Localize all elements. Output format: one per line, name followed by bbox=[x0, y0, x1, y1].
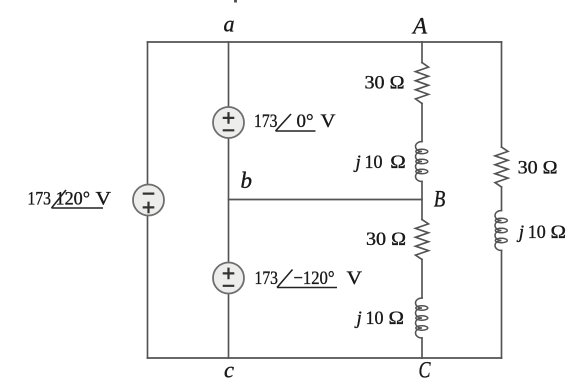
svg-text:Ω: Ω bbox=[389, 308, 405, 329]
inductor j10ohm A-B branch bbox=[416, 142, 428, 182]
svg-text:Ω: Ω bbox=[390, 152, 406, 173]
resistor 30ohm right branch bbox=[495, 147, 508, 187]
svg-text:j: j bbox=[516, 222, 524, 243]
source Van 173/120 V circle bbox=[133, 185, 164, 216]
svg-text:j: j bbox=[353, 152, 361, 173]
svg-text:30 Ω: 30 Ω bbox=[365, 73, 405, 94]
wire bottom rail c-C bbox=[148, 357, 502, 359]
svg-text:j: j bbox=[354, 308, 362, 329]
inductor j10ohm B-C branch bbox=[416, 298, 428, 338]
svg-text:Ω: Ω bbox=[551, 222, 567, 243]
svg-text:10: 10 bbox=[366, 308, 384, 329]
wire branch A-B-C vertical segments bbox=[421, 42, 423, 358]
svg-text:10: 10 bbox=[365, 152, 383, 173]
source Vbc 173/-120 V circle bbox=[213, 263, 244, 294]
label source 173/120 V bbox=[28, 189, 112, 210]
svg-text:10: 10 bbox=[528, 222, 546, 243]
svg-text:−120°: −120° bbox=[294, 268, 335, 289]
svg-text:30 Ω: 30 Ω bbox=[366, 229, 406, 250]
wire top rail a-A bbox=[148, 41, 502, 43]
label j10 ohm B-C branch bbox=[354, 308, 405, 329]
svg-text:120°: 120° bbox=[56, 189, 91, 210]
resistor 30ohm A-branch bbox=[416, 63, 429, 104]
label j10 ohm right branch bbox=[516, 222, 566, 243]
resistor 30ohm B-C branch bbox=[416, 220, 429, 260]
svg-text:0°: 0° bbox=[297, 111, 314, 132]
svg-text:b: b bbox=[241, 168, 253, 193]
svg-text:V: V bbox=[321, 111, 336, 132]
label source 173/0 V bbox=[254, 111, 336, 132]
svg-text:V: V bbox=[347, 268, 363, 289]
source Vab 173/0 V circle bbox=[213, 107, 244, 138]
svg-text:173: 173 bbox=[254, 111, 278, 132]
inductor j10ohm right branch bbox=[495, 211, 507, 251]
wire middle branch a-b-c bbox=[228, 42, 230, 358]
label source 173/-120 V bbox=[255, 268, 363, 289]
svg-text:C: C bbox=[419, 358, 432, 383]
label j10 ohm A-B branch bbox=[353, 152, 406, 173]
svg-text:a: a bbox=[224, 12, 235, 37]
svg-text:V: V bbox=[96, 189, 112, 210]
wire node b to node B bbox=[229, 199, 423, 201]
svg-text:173: 173 bbox=[28, 189, 52, 210]
svg-text:30 Ω: 30 Ω bbox=[518, 158, 558, 179]
svg-text:A: A bbox=[411, 14, 428, 39]
wire left branch bbox=[147, 42, 149, 358]
wire right branch vertical segments bbox=[501, 42, 503, 358]
svg-text:c: c bbox=[224, 358, 234, 383]
stray crop mark top edge bbox=[234, 0, 237, 3]
svg-text:173: 173 bbox=[255, 268, 279, 289]
svg-text:B: B bbox=[434, 187, 446, 212]
